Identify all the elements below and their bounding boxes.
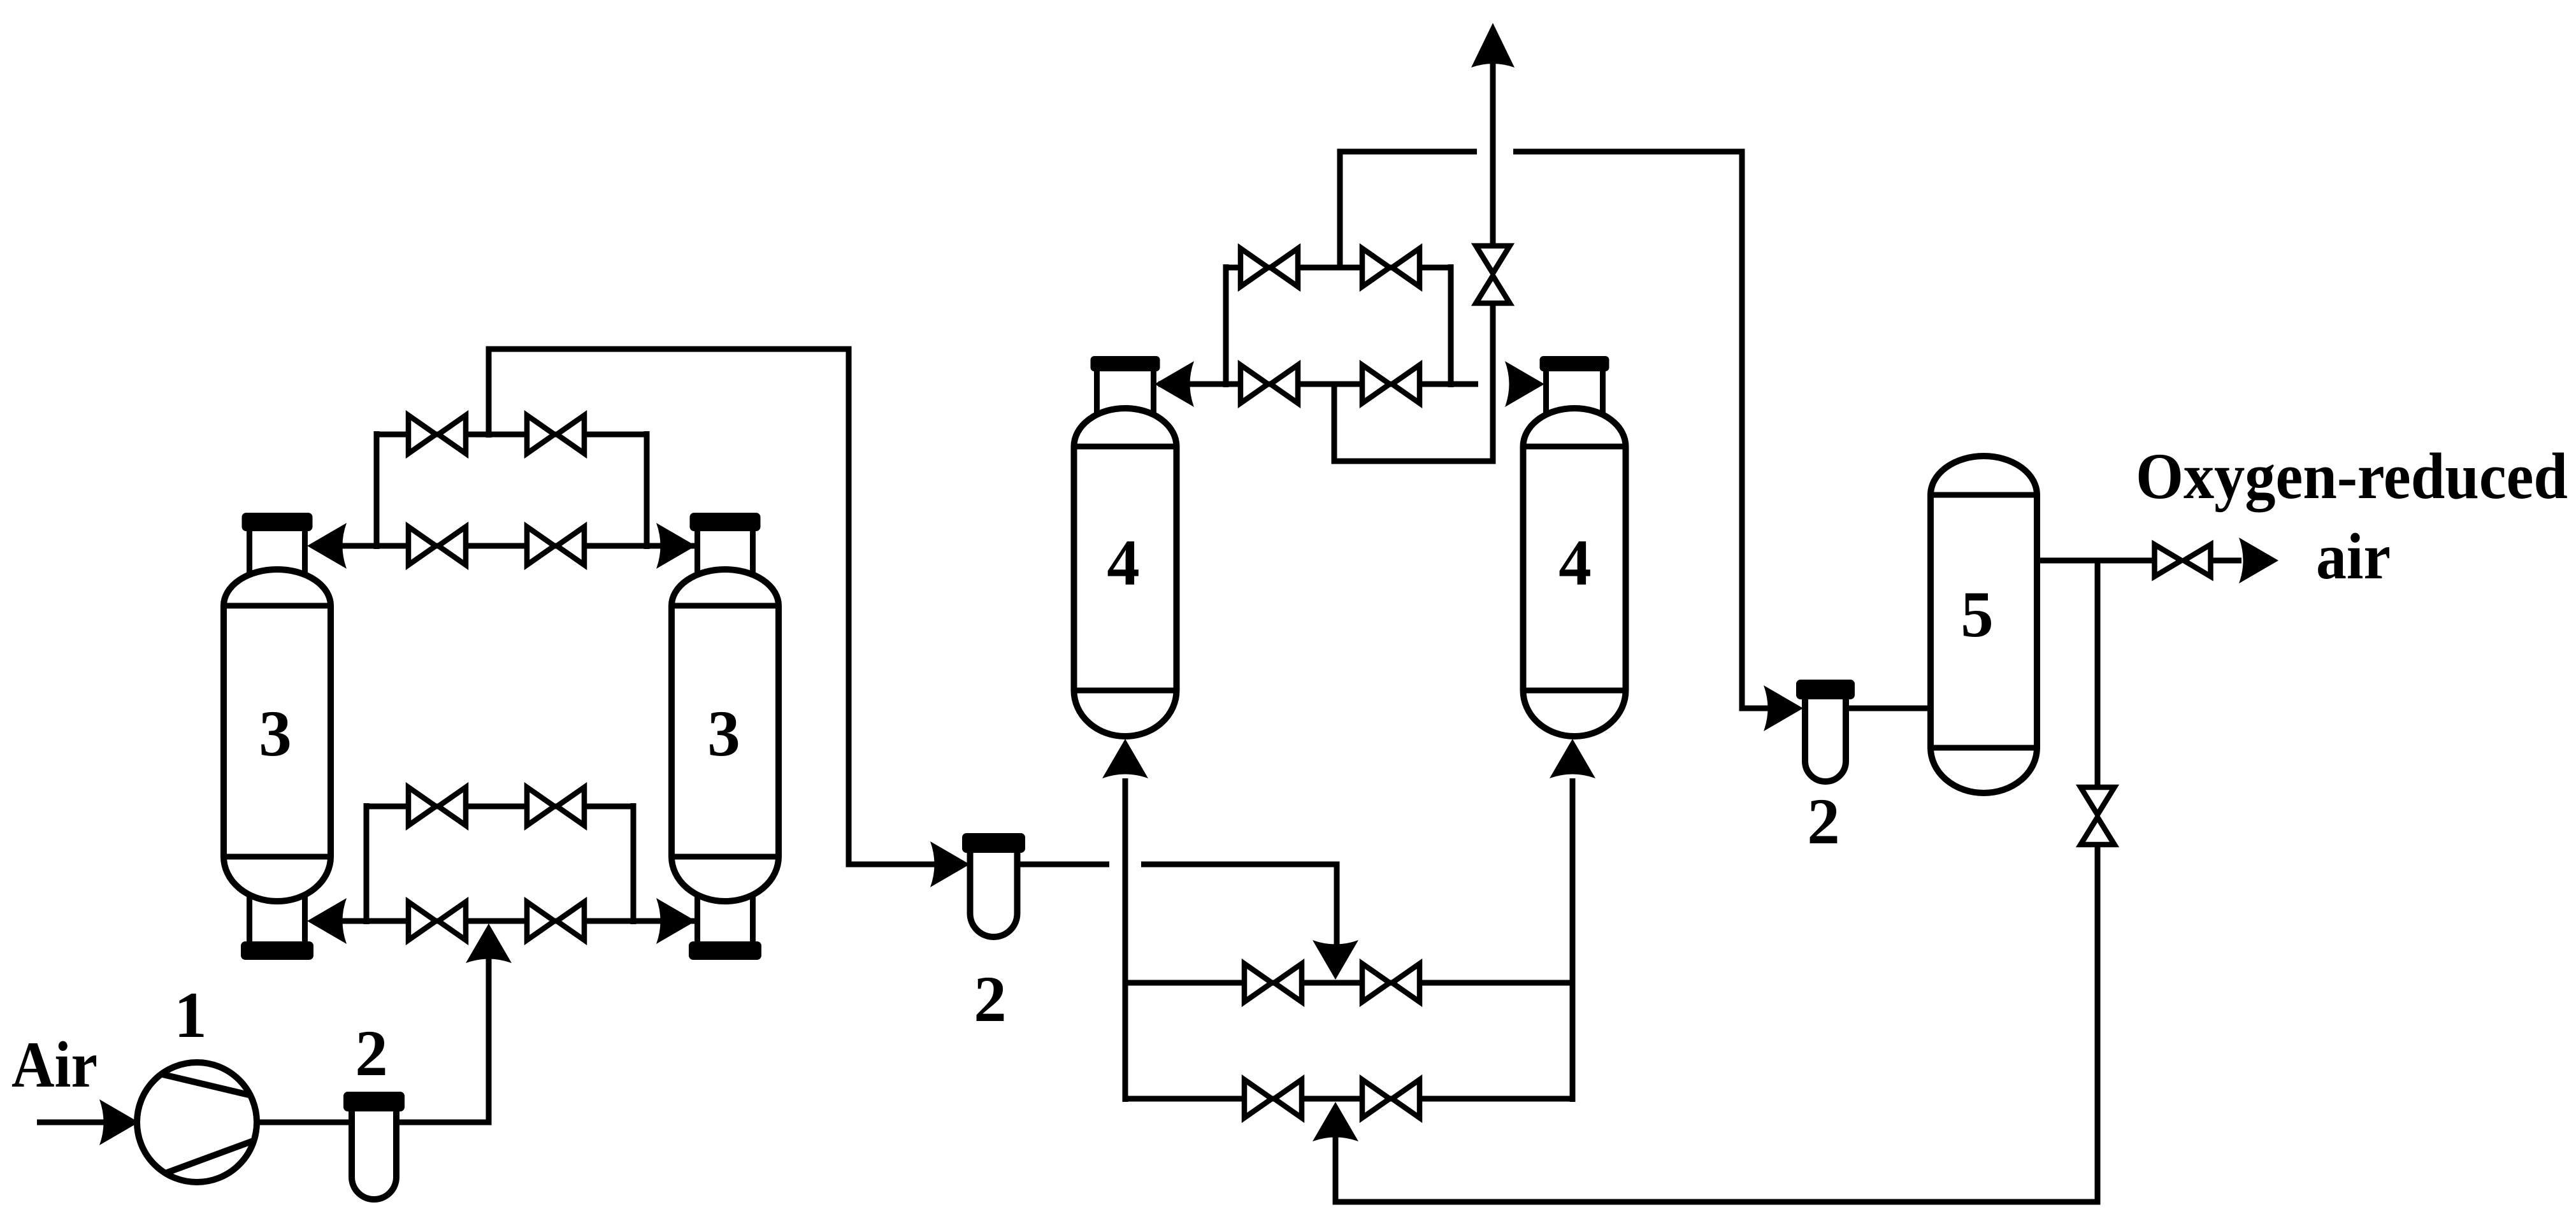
wire: col3 top manifold upper branch (377, 432, 647, 438)
wire: col4 feed manifold lower branch (1125, 1096, 1572, 1102)
svg-text:3: 3 (707, 697, 740, 770)
wire: col3 bottom manifold upper branch (366, 804, 633, 810)
wire: recycle drop from outlet tee (2095, 560, 2101, 791)
wire: left riser to column 4 bottom (1123, 778, 1128, 1102)
arrow into left column 3 bottom (307, 898, 347, 944)
valve top-left of col3 lower manifold (408, 787, 466, 825)
valve top-left of col3 upper manifold (408, 415, 466, 453)
wire: col3 bottom manifold lower branch (312, 918, 694, 924)
valve left of col4 feed lower branch (1244, 1080, 1302, 1118)
wire: filter 2b outlet (1018, 862, 1109, 867)
wire: col3 bottom manifold left leg (364, 803, 370, 924)
svg-text:1: 1 (174, 979, 207, 1052)
svg-text:5: 5 (1961, 578, 1994, 651)
filter 2a (after compressor) (343, 1092, 405, 1199)
valve left of col4 feed upper branch (1244, 964, 1302, 1002)
wire: col4 top manifold left leg (1223, 264, 1229, 387)
arrow into filter 2b (930, 841, 970, 887)
wire: col4 top manifold upper branch (1226, 265, 1451, 271)
valve right of col4 top upper branch (1362, 248, 1420, 287)
arrow up into lower manifold of columns 3 (466, 924, 512, 963)
compressor 1 (air blower) (137, 1062, 257, 1182)
vessel 3 (right adsorber) (672, 513, 779, 960)
vessel 4 (right column) (1523, 356, 1626, 736)
svg-text:Air: Air (11, 1029, 97, 1101)
wire: col3 upper manifold left leg (374, 431, 380, 549)
label 5 (buffer tank) (1961, 578, 1994, 651)
label 2 (filter 2c) (1807, 785, 1840, 858)
svg-text:4: 4 (1107, 527, 1140, 599)
label air (product stream) (2316, 520, 2391, 593)
arrow into right column 3 bottom (656, 898, 696, 944)
arrow into left column 3 top (307, 523, 347, 569)
label 3 (right column) (707, 697, 740, 770)
wire: col4 top manifold right leg (1448, 264, 1454, 387)
wire: product header left of vent (1337, 149, 1478, 155)
vessel 3 (left adsorber) (224, 513, 331, 960)
valve on recycle line (vertical) (2081, 787, 2115, 845)
wire: filter 2c to buffer tank (1845, 706, 1934, 711)
valve left of col4 top upper branch (1241, 248, 1298, 287)
valve bottom-right of col3 lower manifold (527, 902, 584, 940)
label 2 (filter 2b) (974, 963, 1007, 1036)
svg-text:3: 3 (259, 697, 292, 770)
wire: col3 top manifold lower branch (312, 543, 694, 549)
wire: col4 top manifold lower branch (1158, 382, 1478, 387)
arrow up into right column 4 (1550, 739, 1595, 778)
valve right of col4 top lower branch (1362, 365, 1420, 403)
svg-text:Oxygen-reduced: Oxygen-reduced (2136, 440, 2568, 513)
valve top-right of col3 upper manifold (527, 415, 584, 453)
wire: col3 bottom manifold right leg (631, 803, 637, 924)
vessel 4 (left column) (1074, 356, 1177, 736)
arrow into right column 4 top (1505, 361, 1544, 407)
arrow into left column 4 top (1155, 361, 1194, 407)
vessel 5 (buffer tank) (1931, 456, 2037, 793)
label 4 (left column) (1107, 527, 1140, 599)
valve right of col4 feed lower branch (1362, 1080, 1420, 1118)
label Oxygen-reduced (2136, 440, 2568, 513)
filter 2c (before buffer tank) (1796, 680, 1855, 782)
wire: recycle riser and return line (1335, 841, 2097, 1202)
valve left of col4 top lower branch (1241, 365, 1298, 403)
wire: vent line to atmosphere (1490, 64, 1496, 248)
arrow vent to atmosphere (1471, 23, 1515, 68)
svg-text:2: 2 (355, 1017, 388, 1090)
label Air (feed stream) (11, 1029, 97, 1101)
valve bottom-left of col3 upper manifold (408, 527, 466, 565)
valve on product outlet (2155, 545, 2211, 576)
wire: product header right of vent (1513, 152, 1770, 708)
label 2 (filter 2a) (355, 1017, 388, 1090)
filter 2b (between sections) (962, 833, 1025, 937)
wire: buffer tank outlet (2037, 558, 2157, 564)
svg-text:air: air (2316, 520, 2391, 593)
valve bottom-left of col3 lower manifold (408, 902, 466, 940)
wire: outlet valve to arrow (2210, 558, 2241, 564)
valve right of col4 feed upper branch (1362, 964, 1420, 1002)
arrow into right column 3 top (656, 523, 696, 569)
wire: air inlet line (37, 1120, 105, 1125)
valve on vent line (vertical) (1476, 246, 1510, 303)
wire: col3 upper manifold right leg (644, 431, 650, 549)
label 1 (compressor) (174, 979, 207, 1052)
wire: riser from col4 top manifold to product header (1337, 154, 1343, 270)
svg-text:2: 2 (974, 963, 1007, 1036)
label 3 (left column) (259, 697, 292, 770)
svg-text:2: 2 (1807, 785, 1840, 858)
label 4 (right column) (1558, 527, 1592, 599)
arrow up into left column 4 (1102, 739, 1148, 778)
arrow up into col4 feed lower branch (1313, 1102, 1358, 1141)
arrow down into col4 feed manifold (1313, 940, 1358, 980)
wire: filter 2a to riser (395, 955, 489, 1122)
wire: right riser to column 4 bottom (1570, 778, 1576, 1102)
wire: filter 2b outlet after crossing (1141, 864, 1337, 948)
wire: compressor to filter 2a (257, 1120, 357, 1125)
arrow into filter 2c (1764, 685, 1803, 731)
wire: col4 feed manifold upper branch (1125, 980, 1572, 986)
valve top-right of col3 lower manifold (527, 787, 584, 825)
svg-text:4: 4 (1558, 527, 1592, 599)
valve bottom-right of col3 upper manifold (527, 527, 584, 565)
arrow product out (2239, 538, 2278, 583)
arrow into compressor 1 (99, 1099, 139, 1145)
wire: vent loop from col4 lower branch (1334, 304, 1493, 461)
wire: top header from col3 to filter 2b (489, 349, 937, 864)
